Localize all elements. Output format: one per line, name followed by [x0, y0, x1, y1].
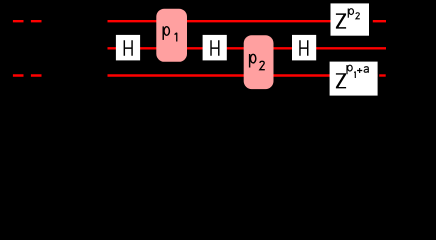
- wire q2 output stub: [379, 74, 386, 76]
- gate H3: [292, 35, 316, 61]
- wire q2 dashed continuation: [13, 74, 42, 76]
- gate H2: [203, 35, 227, 61]
- wire q2: [108, 74, 378, 76]
- gate Z^p2: [331, 3, 370, 35]
- wire q0: [108, 20, 370, 22]
- wire q0 dashed continuation: [13, 20, 42, 22]
- gate Z^p1+a: [330, 62, 378, 96]
- phase gate p1: [156, 9, 187, 62]
- phase gate p2: [244, 35, 274, 89]
- gate H1: [116, 35, 140, 61]
- wire q1: [108, 47, 387, 49]
- wire q0 output stub: [373, 20, 386, 22]
